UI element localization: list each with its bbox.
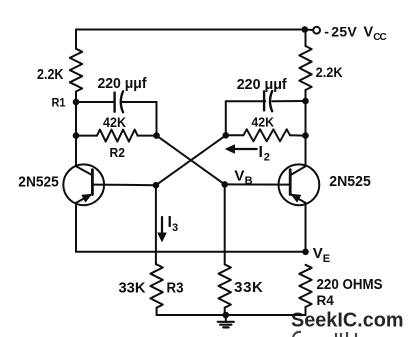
svg-text:E: E [323,253,330,265]
svg-text:42K: 42K [251,115,274,130]
ground [218,315,234,327]
svg-text:2N525: 2N525 [329,173,371,190]
svg-text:2N525: 2N525 [18,174,59,191]
svg-text:3: 3 [172,222,178,234]
wire right rail cap node to 42K node [305,101,307,136]
svg-text:V: V [234,167,244,184]
svg-text:V: V [313,245,323,262]
wire cross-couple left 42K node to VB [157,136,225,185]
svg-text:R4: R4 [317,292,334,308]
svg-text:2.2K: 2.2K [316,64,343,80]
resistor R4 220 OHMS [299,265,382,315]
svg-text:33K: 33K [119,279,146,296]
current arrow I3 [158,214,178,241]
watermark partial second line [293,332,356,337]
wire supply tap to terminal [305,29,313,32]
wire Q2 emitter to VE node [305,203,307,252]
terminal -25V VCC [313,23,387,43]
current arrow I2 [226,144,270,164]
node right 42K left [223,132,230,139]
node VE [302,249,309,256]
svg-text:2: 2 [264,152,270,164]
svg-text:R3: R3 [167,280,184,296]
svg-text:SeekIC.com: SeekIC.com [291,309,404,331]
svg-text:R1: R1 [52,95,66,109]
node left 42K left [73,132,80,139]
svg-text:V: V [364,24,374,40]
node ground junction [223,312,230,319]
resistor 2.2K right [299,46,342,101]
resistor R1 2.2K [37,30,82,110]
node left 42K right [153,132,160,139]
capacitor 220uuf right [226,77,306,135]
svg-text:220 μμf: 220 μμf [237,77,287,93]
svg-text:25V: 25V [331,23,357,39]
capacitor C1 220uuf left [76,76,157,136]
node R1 [73,99,80,106]
transistor Q2 2N525 right [225,164,371,205]
wire left rail 42K node to Q1 collector [75,136,77,167]
transistor Q1 2N525 left [18,164,156,205]
wire bottom bus [157,314,306,316]
svg-text:2.2K: 2.2K [37,67,64,83]
svg-text:42K: 42K [103,115,126,130]
svg-text:220 OHMS: 220 OHMS [317,277,383,293]
wire top supply bus [76,29,305,31]
resistor 42K right [226,115,306,142]
wire Q1 emitter down [75,203,77,252]
svg-text:B: B [245,175,253,187]
node right cap [302,98,309,105]
wire Q1 base node to VB vertical drops [155,185,157,264]
resistor R3 33K [119,264,184,315]
wire right rail 42K node to Q2 collector [305,136,307,167]
svg-text:I: I [259,144,263,161]
svg-text:33K: 33K [234,279,263,296]
node supply tap [302,26,309,33]
node Q1 base [153,182,160,189]
node VB label [234,167,252,186]
resistor R2 42K [76,115,157,160]
svg-text:-: - [324,23,329,39]
svg-text:CC: CC [373,32,387,43]
wire left rail R1 node to 42K node [75,102,77,136]
wire emitter bus to VE [76,251,306,253]
node VE label [313,245,330,265]
svg-text:R2: R2 [110,146,126,160]
wire VB node down to right 33K [224,184,226,264]
wire right rail top dot to 2.2K [305,30,307,47]
node right 42K right [302,132,309,139]
svg-text:220 μμf: 220 μμf [98,76,147,92]
resistor 33K right [219,264,264,315]
wire cross-couple right 42K node to Q1 base node [156,135,226,185]
node VB [221,181,228,188]
